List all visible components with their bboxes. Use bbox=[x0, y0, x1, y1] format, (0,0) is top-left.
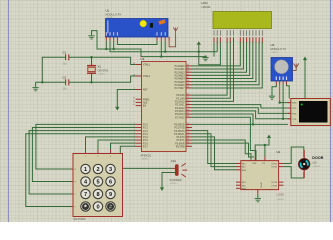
wire sounder to ground arrow bbox=[162, 173, 175, 188]
sounder LS1 bbox=[173, 163, 188, 177]
wire P2.6 down to P3.0 rail bbox=[192, 114, 253, 124]
svg-text:OUT4: OUT4 bbox=[271, 185, 278, 187]
svg-text:P3.6/WR: P3.6/WR bbox=[175, 143, 185, 145]
terminal screen bbox=[299, 101, 328, 123]
wire XTAL1 net bbox=[69, 57, 136, 64]
wire U1 pin4 bridge bbox=[117, 41, 157, 45]
svg-text:VSS: VSS bbox=[252, 163, 257, 165]
wire C1 left to ground rail bbox=[36, 57, 66, 82]
svg-text:P3.1/TXD: P3.1/TXD bbox=[175, 128, 185, 130]
svg-text:38: 38 bbox=[187, 68, 189, 70]
svg-text:LM016L: LM016L bbox=[202, 5, 212, 9]
svg-text:5: 5 bbox=[96, 180, 99, 186]
svg-text:15: 15 bbox=[187, 139, 189, 141]
wire C2 left bbox=[42, 81, 65, 83]
svg-text:P3.2/INT0: P3.2/INT0 bbox=[174, 131, 185, 133]
terminal pins bbox=[288, 103, 298, 121]
svg-text:P2.4/A12: P2.4/A12 bbox=[175, 107, 185, 110]
wire U4 pin3 to CTS net bbox=[282, 85, 284, 119]
wire XTAL2 net bbox=[69, 76, 136, 82]
svg-text:0: 0 bbox=[96, 205, 99, 211]
power arrow near LCD bbox=[197, 41, 201, 45]
svg-text:26: 26 bbox=[187, 109, 189, 111]
wire VS bbox=[264, 145, 266, 157]
wire U4 pin1 to ground bbox=[272, 85, 276, 96]
svg-text:P3.7/RD: P3.7/RD bbox=[176, 146, 185, 148]
svg-text:P1.7: P1.7 bbox=[143, 146, 148, 148]
svg-text:34: 34 bbox=[187, 80, 189, 82]
svg-text:23: 23 bbox=[187, 100, 189, 102]
wire LCD VDD bbox=[216, 42, 218, 52]
svg-text:12: 12 bbox=[187, 129, 189, 131]
svg-text:P2.6/A14: P2.6/A14 bbox=[175, 113, 185, 116]
wire L293D GND bbox=[257, 194, 259, 198]
svg-text:P2.1/A9: P2.1/A9 bbox=[176, 97, 185, 100]
antenna ANT1 bbox=[173, 28, 178, 36]
svg-text:CTS: CTS bbox=[292, 119, 297, 121]
wire P1.4 keypad col1 bbox=[86, 137, 136, 150]
svg-text:10: 10 bbox=[187, 123, 189, 125]
svg-text:SOUNDER: SOUNDER bbox=[170, 179, 182, 182]
wire P2.3 to terminal TXD bbox=[192, 105, 291, 108]
svg-text:27: 27 bbox=[187, 113, 189, 115]
svg-text:EA: EA bbox=[143, 105, 147, 108]
wire P3.5 long bbox=[192, 140, 251, 161]
svg-text:U2: U2 bbox=[277, 150, 281, 154]
wire RST bbox=[117, 90, 135, 108]
svg-text:PSEN: PSEN bbox=[143, 99, 150, 101]
svg-text:2: 2 bbox=[96, 167, 99, 173]
svg-text:22: 22 bbox=[187, 97, 189, 99]
svg-text:37: 37 bbox=[187, 71, 189, 73]
LCD pins bbox=[214, 37, 262, 43]
svg-text:<TEXT>: <TEXT> bbox=[98, 72, 107, 75]
svg-text:P0.6/AD6: P0.6/AD6 bbox=[175, 84, 186, 87]
svg-text:RTS: RTS bbox=[292, 113, 297, 115]
svg-text:P0.2/AD2: P0.2/AD2 bbox=[175, 71, 186, 74]
svg-text:GND: GND bbox=[261, 182, 263, 187]
wire U4 pin4 bbox=[287, 85, 290, 99]
wire P2.7 down right bbox=[192, 117, 256, 160]
svg-text:P0.5/AD5: P0.5/AD5 bbox=[175, 81, 186, 84]
svg-text:OUT3: OUT3 bbox=[271, 182, 278, 184]
svg-text:P3.0/RXD: P3.0/RXD bbox=[174, 125, 185, 127]
svg-text:13: 13 bbox=[187, 132, 189, 134]
wire P3.2 to IN1 bbox=[192, 131, 236, 164]
L293D body bbox=[241, 161, 279, 190]
antenna for U4 bbox=[293, 64, 299, 71]
U1 orange cap bbox=[158, 19, 165, 24]
wire RS bbox=[192, 42, 227, 95]
svg-text:7: 7 bbox=[84, 192, 87, 198]
svg-text:P0.4/AD4: P0.4/AD4 bbox=[175, 78, 186, 81]
antenna feed wire bbox=[169, 35, 176, 47]
svg-text:32: 32 bbox=[187, 86, 189, 88]
LCD screen bbox=[213, 12, 272, 29]
U1 yellow inductor bbox=[140, 20, 147, 27]
L293D pins bbox=[236, 157, 283, 194]
wire P1.5 keypad col2 bbox=[98, 140, 136, 150]
MCU right pin stubs bbox=[186, 66, 192, 146]
svg-text:21: 21 bbox=[187, 94, 189, 96]
power arrow for L293D bbox=[267, 135, 271, 139]
wire P3.0 long rail bbox=[192, 123, 288, 125]
svg-text:8: 8 bbox=[96, 192, 99, 198]
svg-text:TXD: TXD bbox=[292, 108, 297, 110]
svg-text:30: 30 bbox=[133, 101, 135, 103]
svg-text:OUT1: OUT1 bbox=[271, 164, 278, 166]
svg-text:P1.1: P1.1 bbox=[143, 128, 148, 130]
svg-text:11: 11 bbox=[187, 126, 189, 128]
svg-text:P1.3: P1.3 bbox=[143, 134, 148, 136]
svg-text:P2.2/A10: P2.2/A10 bbox=[175, 101, 185, 104]
svg-text:RST: RST bbox=[143, 90, 148, 92]
svg-text:36: 36 bbox=[187, 74, 189, 76]
svg-text:P1.0: P1.0 bbox=[143, 125, 148, 127]
wire E bbox=[192, 42, 234, 101]
svg-text:P2.5/A13: P2.5/A13 bbox=[175, 110, 185, 113]
svg-text:LS1: LS1 bbox=[171, 159, 176, 163]
svg-text:35: 35 bbox=[187, 77, 189, 79]
svg-text:9: 9 bbox=[109, 192, 112, 198]
svg-text:*: * bbox=[84, 203, 87, 212]
svg-text:28: 28 bbox=[187, 116, 189, 118]
svg-text:#: # bbox=[109, 204, 112, 210]
svg-text:1: 1 bbox=[84, 167, 87, 173]
svg-text:P0.0/AD0: P0.0/AD0 bbox=[175, 65, 186, 68]
svg-text:<TEXT>: <TEXT> bbox=[170, 182, 179, 185]
svg-text:XTAL1: XTAL1 bbox=[143, 64, 151, 67]
wire U1 pin1 to ground net bbox=[105, 41, 107, 49]
capacitor C2 bbox=[66, 79, 69, 85]
svg-text:<TEXT>: <TEXT> bbox=[271, 51, 280, 54]
wire OUT2 to motor bottom bbox=[283, 167, 303, 178]
svg-text:LCD: LCD bbox=[202, 1, 209, 5]
svg-text:<TEXT>: <TEXT> bbox=[277, 198, 286, 201]
bus P0 to LCD D0-D7 bbox=[192, 42, 262, 88]
svg-text:1: 1 bbox=[85, 156, 86, 158]
svg-text:P1.5: P1.5 bbox=[143, 140, 148, 142]
svg-text:P0.1/AD1: P0.1/AD1 bbox=[175, 68, 186, 71]
MCU pin numbers bbox=[133, 63, 189, 147]
svg-text:P1.4: P1.4 bbox=[143, 137, 148, 139]
wire U1 pin3 to ground net bbox=[113, 41, 115, 49]
ground for caps bbox=[35, 82, 37, 87]
terminal body bbox=[291, 99, 331, 126]
svg-text:KEYPAD: KEYPAD bbox=[74, 217, 87, 221]
wire crystal top bbox=[91, 57, 93, 60]
svg-text:CRYSTAL: CRYSTAL bbox=[98, 70, 109, 73]
svg-text:24: 24 bbox=[187, 103, 189, 105]
svg-text:P2.3/A11: P2.3/A11 bbox=[175, 104, 185, 107]
svg-text:33: 33 bbox=[187, 83, 189, 85]
wire LCD VEE loop bbox=[199, 42, 221, 65]
svg-text:AT89C51: AT89C51 bbox=[141, 154, 152, 158]
wire U1 pin6 to ground rail bbox=[160, 41, 162, 57]
svg-text:39: 39 bbox=[187, 64, 189, 66]
svg-text:P1.6: P1.6 bbox=[143, 143, 148, 145]
svg-text:C2: C2 bbox=[63, 76, 67, 80]
svg-text:MODULO RX: MODULO RX bbox=[106, 13, 122, 17]
U1 black crystal bbox=[150, 23, 153, 28]
wire P3.4 to EN1 bbox=[192, 137, 236, 170]
wire P3.6 long bbox=[192, 143, 254, 157]
svg-text:X1: X1 bbox=[98, 65, 102, 69]
MCU left pin names bbox=[143, 64, 151, 149]
bus P1.0-P1.3 to keypad rows bbox=[26, 124, 136, 206]
terminal cursor bbox=[301, 104, 303, 106]
MCU U3 body bbox=[142, 62, 187, 152]
svg-text:ALE: ALE bbox=[143, 102, 148, 105]
svg-text:MODULO TX: MODULO TX bbox=[271, 47, 287, 51]
wire to terminal RXD bbox=[280, 102, 291, 104]
svg-text:31: 31 bbox=[133, 104, 135, 106]
svg-text:U1: U1 bbox=[106, 9, 110, 13]
LCD pin labels bbox=[214, 30, 263, 36]
svg-text:P3.4/T0: P3.4/T0 bbox=[176, 137, 185, 139]
wire LCD VSS to ground bbox=[213, 42, 215, 57]
svg-text:12V: 12V bbox=[312, 162, 317, 165]
svg-text:P0.3/AD3: P0.3/AD3 bbox=[175, 74, 186, 77]
svg-text:33p: 33p bbox=[63, 63, 68, 66]
U4 pins bbox=[276, 77, 287, 85]
svg-text:6: 6 bbox=[109, 180, 112, 186]
wire RW bbox=[192, 42, 230, 98]
svg-text:P3.5/T1: P3.5/T1 bbox=[176, 140, 185, 142]
crystal X1 bbox=[87, 61, 96, 79]
U1 pin marks bbox=[106, 32, 170, 35]
keypad buttons bbox=[75, 156, 116, 212]
sheet border left bbox=[8, 0, 10, 222]
svg-text:U3: U3 bbox=[141, 57, 145, 61]
svg-text:XTAL2: XTAL2 bbox=[143, 75, 151, 78]
svg-text:P1.2: P1.2 bbox=[143, 131, 148, 133]
wire crystal bottom bbox=[91, 78, 93, 82]
ground near U1 bbox=[92, 31, 206, 57]
wire U4 data (red) down bbox=[279, 85, 281, 103]
svg-text:RXD: RXD bbox=[292, 103, 297, 105]
keypad pins bbox=[72, 150, 111, 207]
capacitor C1 bbox=[66, 54, 69, 60]
wire P1.6 keypad col3 bbox=[111, 143, 136, 150]
svg-text:2: 2 bbox=[97, 156, 98, 158]
svg-text:33p: 33p bbox=[63, 88, 68, 91]
svg-text:29: 29 bbox=[133, 98, 135, 100]
wire P2.5 to terminal CTS bbox=[192, 111, 291, 119]
svg-text:14: 14 bbox=[187, 135, 189, 137]
svg-text:P0.7/AD7: P0.7/AD7 bbox=[175, 87, 186, 90]
svg-text:3: 3 bbox=[110, 156, 111, 158]
svg-text:3: 3 bbox=[109, 167, 112, 173]
svg-text:U4: U4 bbox=[271, 43, 275, 47]
svg-text:DOOR: DOOR bbox=[312, 156, 323, 160]
U1 bottom pins bbox=[106, 37, 169, 41]
svg-text:<TEXT>: <TEXT> bbox=[141, 158, 150, 161]
svg-text:C1: C1 bbox=[63, 51, 67, 55]
TX module U4 body bbox=[271, 58, 293, 82]
wire U1 pin7 to power rail bbox=[164, 41, 166, 52]
wire OUT1 to motor top bbox=[283, 147, 303, 164]
svg-text:17: 17 bbox=[187, 145, 189, 147]
motor DOOR bbox=[303, 150, 305, 178]
RF module U1 body bbox=[106, 19, 169, 38]
svg-text:16: 16 bbox=[187, 142, 189, 144]
wire U1 pin2 power rail bbox=[110, 41, 217, 52]
svg-text:25: 25 bbox=[187, 106, 189, 108]
wire P2.4 to terminal RTS bbox=[192, 108, 291, 114]
svg-text:L293D: L293D bbox=[277, 193, 285, 197]
svg-text:P2.0/A8: P2.0/A8 bbox=[176, 94, 185, 97]
power arrow right of module bbox=[303, 57, 307, 61]
wire P3.3 to IN2 bbox=[192, 134, 236, 167]
svg-text:P3.3/INT1: P3.3/INT1 bbox=[174, 134, 185, 136]
MCU right pin names bbox=[174, 65, 185, 148]
svg-text:P2.7/A15: P2.7/A15 bbox=[175, 116, 185, 119]
L293D pin names bbox=[242, 163, 278, 191]
wire P1.7 sounder bbox=[120, 146, 172, 168]
sheet border right bbox=[330, 0, 332, 222]
keypad body bbox=[73, 154, 123, 217]
svg-text:<TEXT>: <TEXT> bbox=[312, 165, 321, 168]
svg-text:OUT2: OUT2 bbox=[271, 167, 278, 169]
MCU left pin stubs bbox=[136, 65, 142, 147]
